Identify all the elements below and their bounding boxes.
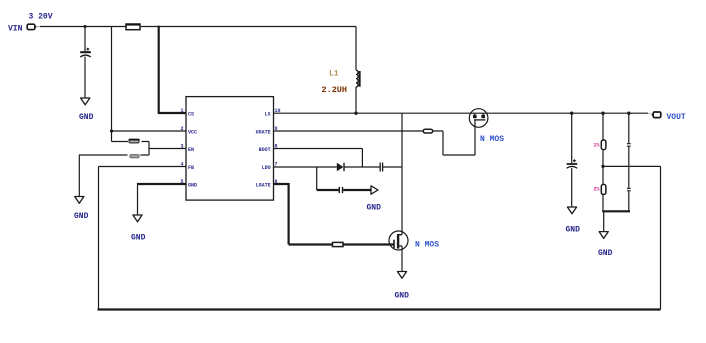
node LX junction — [354, 112, 357, 115]
svg-text:1%: 1% — [594, 143, 600, 149]
wire EN divider row1 — [112, 141, 150, 143]
wire BOOT row — [274, 149, 363, 168]
svg-text:3 20V: 3 20V — [29, 12, 53, 21]
resistor gate R1 (oval) — [423, 129, 433, 133]
wire IC GND pin thick — [138, 183, 187, 185]
connector VIN tag — [27, 24, 35, 29]
node ff cap branch junction — [627, 112, 630, 115]
wire switch node drop — [401, 113, 403, 235]
wire top rail VIN to inductor — [40, 26, 126, 28]
wire divider to ground — [78, 155, 80, 197]
svg-text:VCC: VCC — [188, 129, 197, 135]
wire UGATE row — [274, 130, 424, 132]
wire ff lower — [628, 192, 630, 211]
wire EN row — [149, 148, 186, 150]
svg-text:GND: GND — [598, 249, 613, 258]
svg-text:L1: L1 — [329, 69, 339, 78]
svg-text:3: 3 — [181, 143, 184, 149]
capacitor C output (polarized) — [573, 159, 576, 162]
transistor Q2 N MOS — [389, 231, 408, 250]
ground IC GND pin — [133, 215, 142, 222]
wire output cap to ground — [571, 168, 573, 207]
wire cap to ground — [84, 57, 86, 98]
wire boot cap to LX drop — [383, 166, 402, 168]
resistor FB R top — [601, 140, 606, 150]
svg-text:VIN: VIN — [8, 25, 23, 34]
svg-text:EN: EN — [188, 147, 194, 153]
diode D1 — [337, 163, 344, 171]
resistor divider R bottom — [130, 155, 140, 158]
svg-text:GND: GND — [395, 292, 410, 301]
wire right loop vertical — [660, 166, 662, 309]
wire FB R bottom to bar — [602, 195, 604, 211]
wire ff mid — [628, 147, 630, 188]
wire FB divider top — [602, 113, 604, 139]
wire FB row — [99, 166, 187, 168]
wire ff cap branch upper — [628, 113, 630, 143]
capacitor bypass — [339, 187, 342, 193]
svg-text:2%: 2% — [594, 187, 600, 193]
svg-text:GND: GND — [131, 234, 146, 243]
svg-text:N MOS: N MOS — [415, 241, 439, 250]
wire cap branch — [84, 27, 86, 52]
svg-text:N MOS: N MOS — [480, 135, 504, 144]
svg-text:1: 1 — [181, 108, 184, 114]
svg-text:2.2UH: 2.2UH — [322, 85, 348, 95]
svg-text:LX: LX — [265, 112, 271, 118]
node FB divider top junction — [601, 112, 604, 115]
svg-text:4: 4 — [181, 161, 184, 167]
svg-text:BOOT: BOOT — [259, 147, 271, 153]
wire bypass thick — [317, 189, 339, 191]
wire LX main row — [274, 112, 649, 114]
wire divider mid — [148, 142, 150, 156]
wire bar to ground — [603, 212, 605, 231]
svg-text:FB: FB — [188, 165, 194, 171]
svg-text:VOUT: VOUT — [667, 113, 686, 122]
wire FB left loop vertical — [98, 167, 100, 310]
svg-text:5: 5 — [181, 179, 184, 185]
node FB junction — [601, 165, 604, 168]
svg-text:LDO: LDO — [262, 165, 271, 171]
wire LDO row — [274, 166, 337, 168]
connector VOUT tag — [653, 112, 661, 118]
resistor divider R top — [129, 139, 139, 143]
wire EN divider row2 — [79, 154, 149, 156]
resistor gate R2 — [333, 242, 344, 246]
wire CS thick — [158, 26, 186, 113]
wire diode to boot cap — [344, 166, 380, 168]
wire ground loop bottom — [98, 308, 661, 310]
wire output cap branch — [571, 113, 573, 163]
resistor FB R bottom — [601, 184, 606, 194]
wire ground bar thick — [602, 210, 630, 212]
svg-text:GND: GND — [566, 226, 581, 235]
capacitor boot — [380, 163, 382, 172]
svg-text:GND: GND — [367, 204, 382, 213]
node output cap junction — [570, 112, 573, 115]
svg-text:UGATE: UGATE — [256, 129, 271, 135]
ground input cap — [81, 98, 90, 105]
capacitor C input (polarized) — [86, 48, 89, 51]
svg-text:LGATE: LGATE — [256, 182, 271, 188]
wire LGATE thick — [274, 183, 333, 245]
ground sideways — [371, 186, 378, 194]
ground FB divider — [599, 232, 608, 239]
wire MOS2 source to ground — [401, 246, 403, 272]
wire inductor drop — [355, 27, 357, 71]
ground output cap — [567, 207, 576, 214]
wire IC GND drop — [137, 183, 139, 215]
wire gate path MOS1 — [433, 120, 475, 155]
wire VCC branch — [111, 27, 113, 142]
wire bypass to side ground — [343, 189, 371, 191]
ground MOS2 — [397, 272, 406, 279]
capacitor ff top (small box) — [627, 144, 631, 147]
node VCC pin junction — [110, 129, 113, 132]
ground EN divider — [75, 197, 84, 204]
wire FB row right — [603, 165, 661, 167]
wire FB node to R bottom — [602, 166, 604, 184]
wire VCC row — [112, 130, 187, 132]
wire FB R top to node — [602, 150, 604, 166]
svg-text:2: 2 — [181, 126, 184, 132]
transistor Q1 N MOS — [469, 109, 488, 128]
wire LDO bypass drop — [316, 167, 318, 190]
node input cap junction — [84, 25, 87, 28]
svg-text:GND: GND — [188, 182, 197, 188]
wire inductor to LX node — [355, 87, 357, 113]
resistor R sense — [126, 24, 140, 30]
svg-text:GND: GND — [74, 212, 89, 221]
IC U1 body — [186, 97, 274, 201]
capacitor ff bottom (small box) — [627, 188, 631, 191]
svg-text:GND: GND — [79, 113, 94, 122]
inductor L1 — [356, 70, 360, 87]
svg-text:CS: CS — [188, 112, 194, 118]
wire gate R2 to MOS2 — [343, 243, 394, 245]
